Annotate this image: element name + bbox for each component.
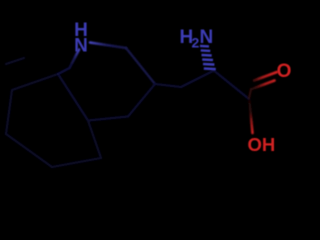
svg-text:OH: OH bbox=[248, 134, 276, 155]
svg-text:N: N bbox=[74, 36, 88, 57]
svg-text:N: N bbox=[200, 27, 214, 48]
svg-text:2: 2 bbox=[192, 35, 200, 51]
svg-text:O: O bbox=[277, 61, 292, 82]
